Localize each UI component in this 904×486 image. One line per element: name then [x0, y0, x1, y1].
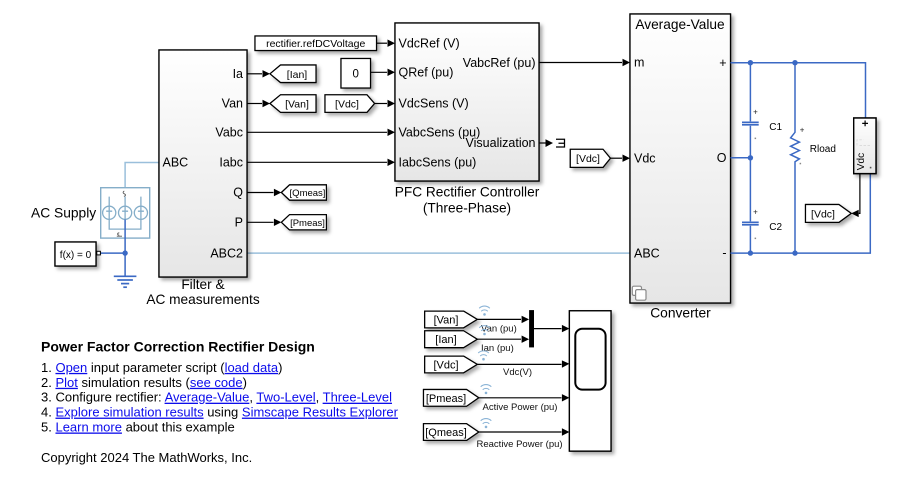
svg-text:QRef (pu): QRef (pu): [399, 66, 454, 80]
svg-text:[Ian]: [Ian]: [287, 69, 308, 81]
goto tag [Qmeas]: [281, 185, 326, 200]
svg-text:C2: C2: [769, 222, 782, 233]
node bottom Rload branch: [792, 250, 797, 255]
wire refDCVoltage to VdcRef: [377, 42, 388, 44]
goto tag [Vdc] right: [806, 205, 852, 223]
svg-text:P: P: [235, 216, 243, 230]
svg-text:+: +: [753, 207, 758, 216]
svg-text:Copyright 2024 The MathWorks,: Copyright 2024 The MathWorks, Inc.: [41, 450, 252, 465]
converter badge icon: [632, 286, 646, 300]
AC Supply source block: [101, 188, 150, 238]
svg-text:1. Open input parameter script: 1. Open input parameter script (load dat…: [41, 360, 282, 375]
svg-text:Reactive Power (pu): Reactive Power (pu): [477, 439, 563, 450]
svg-text:Iabc: Iabc: [219, 156, 243, 170]
svg-text:(Three-Phase): (Three-Phase): [423, 201, 511, 216]
wire [Vdc] to VdcSens: [375, 103, 388, 105]
svg-text:O: O: [717, 151, 727, 165]
from tag [Qmeas] scope: [424, 424, 479, 441]
svg-text:0: 0: [352, 68, 358, 80]
wireless badge Vdc: [478, 351, 489, 361]
from tag [Van] scope: [425, 311, 478, 328]
svg-text:[Vdc]: [Vdc]: [335, 99, 359, 111]
svg-text:-: -: [722, 246, 726, 260]
wire [Ian] to mux: [477, 338, 521, 340]
svg-text:+: +: [753, 107, 758, 116]
solver wire f(x)=0 to node N: [100, 220, 125, 277]
svg-text:Vdc: Vdc: [856, 153, 867, 170]
wire Iabc to IabcSens: [247, 161, 387, 163]
phys wire - bottom rail: [731, 174, 871, 254]
svg-text:VdcSens (V): VdcSens (V): [399, 97, 469, 111]
wire sensor out to [Vdc] goto: [859, 174, 860, 214]
subsystem Filter & AC measurements: [159, 50, 247, 277]
voltage sensor Vdc: [854, 118, 876, 174]
wire Visualization to viewer: [539, 142, 546, 144]
wire ABC supply to filter: [125, 163, 159, 189]
svg-text:Visualization: Visualization: [466, 136, 536, 150]
wire [Vdc] to converter Vdc: [610, 157, 622, 159]
svg-text:[Qmeas]: [Qmeas]: [290, 188, 326, 199]
svg-text:Power Factor Correction Rectif: Power Factor Correction Rectifier Design: [41, 338, 315, 354]
node bottom C branch: [748, 250, 753, 255]
svg-text:[Vdc]: [Vdc]: [576, 153, 600, 165]
svg-text:[Vdc]: [Vdc]: [433, 359, 458, 371]
svg-text:IabcSens (pu): IabcSens (pu): [399, 156, 477, 170]
svg-text:Van (pu): Van (pu): [481, 323, 517, 334]
svg-text:Active Power (pu): Active Power (pu): [483, 402, 558, 413]
svg-text:AC Supply: AC Supply: [31, 206, 96, 221]
goto tag [Van]: [270, 95, 316, 113]
resistor Rload: [791, 63, 836, 253]
solver block f(x)=0: [55, 242, 100, 266]
wire [Qmeas] to scope: [479, 431, 562, 433]
capacitor C2: [742, 158, 783, 253]
svg-text:Q: Q: [233, 186, 243, 200]
wire Van to [Van]: [247, 103, 262, 105]
subsystem Average-Value Converter: [630, 14, 731, 303]
from tag [Ian] scope: [425, 331, 478, 348]
svg-text:3. Configure rectifier: Averag: 3. Configure rectifier: Average-Value, T…: [41, 390, 392, 405]
svg-text:+: +: [719, 56, 726, 70]
wire [Van] to mux: [477, 318, 521, 320]
from tag [Vdc] scope: [425, 356, 478, 373]
wireless badge Qmeas: [481, 419, 492, 429]
capacitor C1: [742, 63, 783, 158]
svg-text:[Pmeas]: [Pmeas]: [290, 218, 325, 229]
wire Ia to [Ian]: [247, 73, 262, 75]
svg-text:Filter &: Filter &: [181, 277, 224, 292]
svg-text:Ia: Ia: [233, 67, 243, 81]
svg-text:VdcRef (V): VdcRef (V): [399, 36, 460, 50]
from tag [Vdc] to converter: [570, 149, 610, 167]
svg-text:[Pmeas]: [Pmeas]: [426, 393, 466, 405]
svg-text:Vabc: Vabc: [215, 126, 243, 140]
svg-text:+: +: [800, 126, 805, 135]
svg-text:f(x) = 0: f(x) = 0: [60, 250, 92, 261]
from tag [Pmeas] scope: [424, 390, 479, 407]
wire 0 to QRef: [371, 71, 388, 73]
svg-text:C1: C1: [769, 122, 782, 133]
svg-text:ABC: ABC: [163, 156, 189, 170]
goto tag [Ian]: [270, 65, 316, 83]
node top C branch: [748, 60, 753, 65]
subsystem PFC Rectifier Controller: [395, 23, 539, 181]
from tag [Vdc] mid: [325, 95, 375, 113]
wire [Vdc] to scope: [477, 363, 561, 365]
wire P to [Pmeas]: [247, 221, 274, 223]
svg-text:5. Learn more about this examp: 5. Learn more about this example: [41, 420, 235, 435]
svg-text:[Vdc]: [Vdc]: [811, 208, 835, 220]
svg-text:Ian (pu): Ian (pu): [481, 343, 514, 354]
wire Q to [Qmeas]: [247, 192, 274, 194]
wireless badge Ian: [479, 326, 490, 336]
svg-text:Average-Value: Average-Value: [635, 17, 724, 32]
wire mux to scope: [534, 328, 562, 330]
phys wire O mid rail: [731, 157, 751, 159]
wire Vabc to VabcSens: [247, 131, 387, 133]
phys wire + top rail: [731, 63, 866, 118]
svg-text:VabcRef (pu): VabcRef (pu): [463, 56, 536, 70]
svg-text:Rload: Rload: [810, 144, 836, 155]
scope block: [569, 311, 611, 451]
svg-text:Vdc: Vdc: [634, 151, 656, 165]
constant block rectifier.refDCVoltage: [255, 36, 377, 51]
wire [Pmeas] to scope: [479, 397, 562, 399]
wireless badge Van: [479, 306, 490, 316]
ground: [114, 276, 137, 287]
svg-text:4. Explore simulation results: 4. Explore simulation results using Sims…: [41, 405, 399, 420]
node N junction: [122, 250, 127, 255]
svg-text:AC measurements: AC measurements: [146, 292, 259, 307]
svg-text:rectifier.refDCVoltage: rectifier.refDCVoltage: [266, 38, 365, 50]
svg-text:2. Plot simulation results (se: 2. Plot simulation results (see code): [41, 375, 247, 390]
svg-text:[Ian]: [Ian]: [435, 334, 456, 346]
svg-text:[Van]: [Van]: [285, 99, 309, 111]
svg-text:ABC2: ABC2: [210, 246, 243, 260]
goto tag [Pmeas]: [281, 215, 326, 230]
svg-text:m: m: [634, 56, 644, 70]
svg-text:ABC: ABC: [634, 246, 660, 260]
wire VabcRef to converter m: [539, 62, 622, 64]
svg-text:PFC Rectifier Controller: PFC Rectifier Controller: [395, 185, 540, 200]
constant block 0: [341, 59, 371, 89]
svg-text:Converter: Converter: [650, 305, 711, 320]
signal viewer icon: [556, 139, 565, 147]
node mid C branch: [748, 155, 753, 160]
wireless badge Pmeas: [481, 385, 492, 395]
wire ABC2 filter to converter: [247, 252, 630, 254]
node top Rload branch: [792, 60, 797, 65]
annotation list: [41, 360, 399, 435]
svg-text:[Qmeas]: [Qmeas]: [425, 427, 467, 439]
svg-text:[Van]: [Van]: [434, 314, 459, 326]
mux: [529, 310, 534, 347]
svg-text:Vdc(V): Vdc(V): [503, 367, 532, 378]
svg-text:Van: Van: [222, 97, 243, 111]
